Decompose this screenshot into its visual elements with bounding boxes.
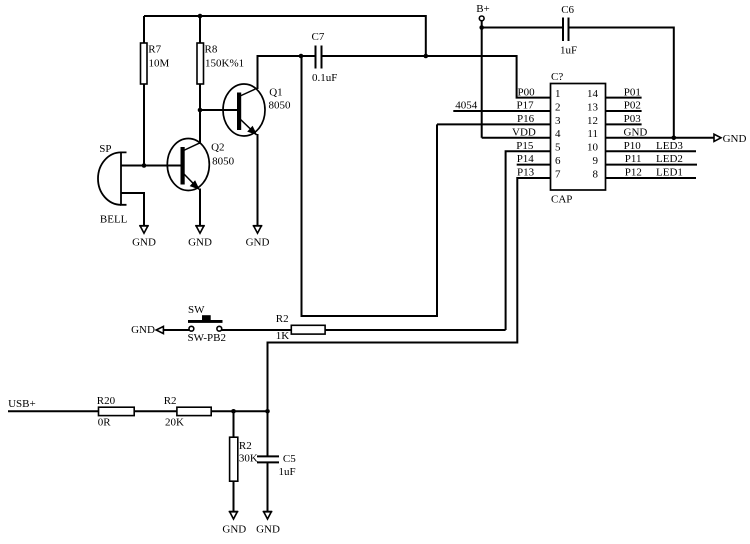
wire switch right contact to R2 (221, 329, 291, 331)
ground port right (714, 133, 746, 145)
svg-text:LED3: LED3 (656, 140, 683, 152)
svg-text:3: 3 (555, 115, 561, 127)
junction R7 bottom on speaker wire (142, 163, 147, 168)
resistor R7 (141, 16, 148, 166)
svg-text:150K%1: 150K%1 (205, 58, 244, 70)
svg-text:9: 9 (593, 155, 599, 167)
ground port left at switch (131, 324, 163, 336)
svg-text:C7: C7 (312, 31, 325, 43)
svg-text:P16: P16 (517, 113, 535, 125)
power port B+ (476, 3, 490, 138)
svg-text:P00: P00 (518, 86, 536, 98)
svg-text:LED2: LED2 (656, 153, 683, 165)
svg-text:5: 5 (555, 142, 561, 154)
svg-text:GND: GND (723, 133, 747, 145)
svg-text:USB+: USB+ (8, 398, 36, 410)
svg-text:7: 7 (555, 168, 561, 180)
resistor R20 (99, 407, 135, 415)
capacitor C5 (257, 456, 279, 511)
capacitor C6 (482, 18, 569, 42)
svg-text:R2: R2 (239, 440, 252, 452)
wire C6 right plate to GND net of pin 11 (570, 28, 674, 138)
wire pin 11 to GND port (606, 137, 715, 139)
svg-text:R2: R2 (164, 395, 177, 407)
wire R20 to R2 20K (134, 410, 177, 412)
wire Q1 emitter down to GND (257, 134, 259, 226)
capacitor C7 (301, 46, 322, 69)
svg-text:B+: B+ (476, 3, 490, 15)
svg-text:R8: R8 (205, 44, 218, 56)
ground at R2 30K (222, 512, 246, 536)
wire pin 3 stub (437, 123, 551, 125)
svg-text:10: 10 (587, 142, 599, 154)
svg-text:SW-PB2: SW-PB2 (188, 332, 227, 344)
wire R2 1K to pin5 drop (325, 329, 506, 331)
svg-text:GND: GND (188, 237, 212, 249)
svg-text:P12: P12 (625, 167, 642, 179)
wire speaker bottom terminal to GND (121, 193, 144, 226)
junction at R8 top on rail (198, 14, 203, 19)
resistor R2 1K (291, 325, 325, 334)
wire Q1 collector up and right to C7 node (258, 56, 302, 89)
svg-text:R2: R2 (276, 313, 289, 325)
wire USB+ to R20 (8, 410, 99, 412)
ground at C5 (256, 512, 280, 536)
svg-text:20K: 20K (165, 417, 184, 429)
wire link C7 node down, across, up to pin 3 (P16) (302, 56, 438, 316)
resistor R2 20K (177, 407, 211, 415)
wire VDD pin 4 from B+ line (482, 137, 551, 139)
junction B+ to C6 (479, 25, 484, 30)
svg-text:6: 6 (555, 155, 561, 167)
resistor R2 30K (230, 411, 238, 511)
ground at speaker (132, 226, 156, 249)
ground at Q1 emitter (246, 226, 270, 249)
svg-text:GND: GND (222, 523, 246, 535)
svg-text:1uF: 1uF (560, 45, 577, 57)
wire top rail from R7 top to drop at x=426 (144, 16, 426, 56)
svg-text:LED1: LED1 (656, 167, 683, 179)
wire pin 8 stub (606, 177, 697, 179)
svg-text:P01: P01 (624, 86, 641, 98)
svg-text:P03: P03 (624, 113, 642, 125)
wire Q1 base from R8 line (200, 109, 238, 111)
svg-text:GND: GND (246, 237, 270, 249)
IC U1 C? 4054 body (551, 84, 606, 191)
svg-text:11: 11 (587, 128, 598, 140)
transistor Q1 (223, 84, 265, 136)
wire pin 2 stub (453, 110, 550, 112)
svg-text:8: 8 (593, 168, 599, 180)
svg-text:GND: GND (624, 126, 648, 138)
junction at Q1 base tap on R8 line (198, 108, 203, 113)
svg-text:P02: P02 (624, 100, 641, 112)
svg-text:4: 4 (555, 128, 561, 140)
svg-text:8050: 8050 (269, 99, 292, 111)
ground at Q2 emitter (188, 226, 212, 249)
svg-text:R7: R7 (148, 44, 161, 56)
wire pin 7 stub, drop, across and down to USB node (268, 178, 551, 456)
svg-text:Q1: Q1 (269, 87, 282, 99)
wire C7 right to pin1 corner and down into pin 1 (323, 56, 551, 98)
svg-text:P11: P11 (625, 153, 642, 165)
junction at R2 30K tap (231, 409, 236, 414)
wire pin 13 stub (606, 110, 642, 112)
svg-text:13: 13 (587, 101, 599, 113)
svg-text:P10: P10 (624, 140, 642, 152)
svg-text:8050: 8050 (212, 156, 235, 168)
wire pin 14 stub (606, 97, 642, 99)
svg-text:0R: 0R (98, 417, 112, 429)
svg-text:VDD: VDD (512, 126, 536, 138)
wire pin 5 stub and drop to switch net (506, 151, 551, 330)
svg-text:R20: R20 (97, 395, 116, 407)
svg-text:P14: P14 (517, 153, 535, 165)
svg-text:Q2: Q2 (211, 142, 224, 154)
svg-text:C6: C6 (561, 4, 574, 16)
svg-text:C?: C? (551, 71, 563, 83)
svg-text:BELL: BELL (100, 214, 128, 226)
svg-text:CAP: CAP (551, 194, 572, 206)
svg-text:2: 2 (555, 101, 561, 113)
junction where top-rail drop meets C7 wire (424, 54, 429, 59)
svg-text:1: 1 (555, 88, 561, 100)
svg-text:C5: C5 (283, 453, 296, 465)
wire pin 6 stub (517, 164, 551, 166)
transistor Q2 (167, 139, 209, 191)
svg-text:SP: SP (99, 143, 111, 155)
svg-text:14: 14 (587, 88, 599, 100)
wire pin 10 stub (606, 150, 697, 152)
svg-text:P17: P17 (517, 100, 535, 112)
wire R2 20K to C5 node (211, 410, 267, 412)
wire speaker top terminal to Q2 base (121, 165, 181, 167)
wire pin 9 stub (606, 164, 698, 166)
svg-text:1K: 1K (276, 330, 290, 342)
svg-text:P13: P13 (517, 167, 535, 179)
wire GND port to switch left contact (163, 329, 189, 331)
svg-text:12: 12 (587, 115, 598, 127)
junction at C5 node (265, 409, 270, 414)
svg-text:4054: 4054 (455, 100, 478, 112)
svg-text:30K: 30K (239, 453, 258, 465)
switch SW SW-PB2 (188, 315, 223, 331)
svg-text:P15: P15 (516, 140, 534, 152)
svg-text:1uF: 1uF (279, 466, 296, 478)
svg-text:GND: GND (256, 523, 280, 535)
speaker SP (98, 152, 127, 204)
svg-text:10M: 10M (149, 58, 170, 70)
wire pin 12 stub (606, 123, 642, 125)
svg-text:GND: GND (131, 324, 155, 336)
resistor R8 (197, 16, 204, 144)
junction C6 drop on pin11 wire (672, 136, 677, 141)
svg-text:0.1uF: 0.1uF (312, 72, 337, 84)
svg-text:GND: GND (132, 237, 156, 249)
svg-text:SW: SW (188, 304, 205, 316)
junction at C7 left node (299, 54, 304, 59)
wire Q2 emitter down to GND (199, 189, 201, 226)
